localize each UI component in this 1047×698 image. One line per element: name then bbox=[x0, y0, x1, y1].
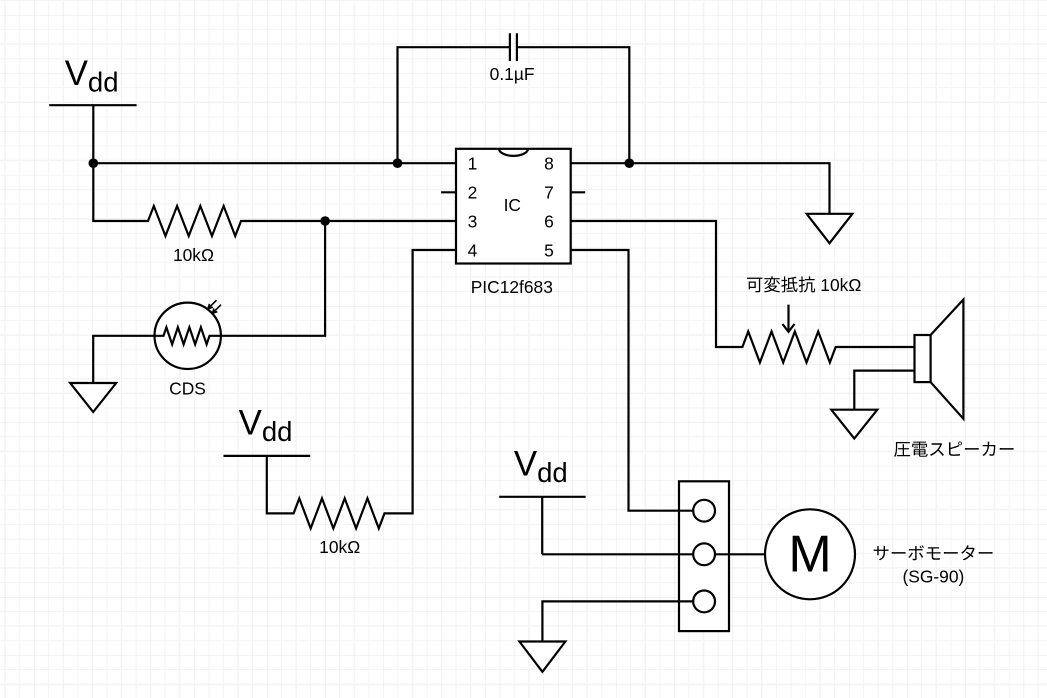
svg-text:(SG-90): (SG-90) bbox=[902, 567, 964, 587]
svg-text:4: 4 bbox=[468, 240, 478, 260]
svg-text:1: 1 bbox=[468, 154, 478, 174]
svg-text:10kΩ: 10kΩ bbox=[319, 537, 360, 557]
svg-text:CDS: CDS bbox=[169, 379, 206, 399]
svg-text:IC: IC bbox=[504, 195, 521, 215]
svg-text:0.1µF: 0.1µF bbox=[490, 64, 535, 84]
svg-text:6: 6 bbox=[544, 212, 554, 232]
svg-text:7: 7 bbox=[544, 183, 554, 203]
svg-text:3: 3 bbox=[468, 212, 478, 232]
svg-text:10kΩ: 10kΩ bbox=[820, 275, 861, 295]
svg-text:8: 8 bbox=[544, 154, 554, 174]
svg-text:5: 5 bbox=[544, 240, 554, 260]
svg-text:M: M bbox=[788, 525, 831, 583]
svg-text:PIC12f683: PIC12f683 bbox=[471, 277, 553, 297]
svg-text:2: 2 bbox=[468, 183, 478, 203]
svg-text:10kΩ: 10kΩ bbox=[173, 245, 214, 265]
